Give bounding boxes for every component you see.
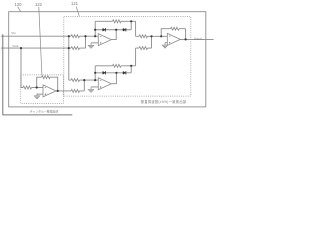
wire U1 diode row	[95, 21, 131, 29]
wire U1 feedback node vertical	[94, 21, 96, 36]
resistor R-122in	[23, 86, 32, 89]
leader 122	[39, 7, 42, 75]
svg-text:120: 120	[15, 2, 23, 7]
wire U1 feedback row	[95, 21, 135, 36]
resistor R-vin	[71, 35, 80, 38]
junction U1 diode row mid	[115, 29, 117, 31]
outer block box 120	[9, 12, 206, 107]
wire Vout row	[1, 36, 86, 48]
op-amp U3	[167, 33, 180, 45]
resistor R-fb2	[113, 64, 122, 67]
wire U3 feedback	[161, 29, 185, 40]
wire 122 +input	[37, 93, 43, 95]
junction U3 input node	[150, 35, 152, 37]
wire node A vertical	[68, 36, 70, 80]
dotted box 122	[21, 75, 64, 104]
wire U2 output	[111, 73, 116, 84]
resistor R-in3a	[139, 35, 148, 38]
junction U3 output	[185, 38, 187, 40]
op-amp U1	[98, 34, 111, 46]
svg-text:121: 121	[71, 1, 79, 6]
ground 122	[34, 93, 39, 98]
wire U1 +input	[91, 42, 98, 44]
leader 121	[76, 7, 79, 16]
junction U1 -input	[94, 35, 96, 37]
ground U1	[88, 43, 93, 48]
op-amp 122	[43, 85, 56, 97]
junction node A top	[68, 35, 70, 37]
dotted box 121	[64, 16, 191, 96]
junction 122 output	[57, 90, 59, 92]
diode D2	[123, 28, 126, 31]
wire 122 output row	[56, 80, 84, 91]
junction U3 -input	[160, 35, 162, 37]
resistor R-122out	[71, 89, 80, 92]
diode D4	[123, 71, 126, 74]
resistor R-122fb	[42, 76, 51, 79]
wire U3 output Vout	[180, 38, 213, 40]
junction parallel R join	[84, 35, 86, 37]
junction U2 diode row left	[94, 72, 96, 74]
wire U2 feedback row	[95, 48, 135, 66]
diode D3	[103, 71, 106, 74]
svg-text:Vin: Vin	[11, 31, 16, 35]
junction 122 -input	[36, 86, 38, 88]
svg-text:122: 122	[35, 2, 43, 7]
wire U1 output	[111, 30, 116, 40]
wire U2 +input	[91, 86, 98, 88]
ground U3	[162, 43, 167, 48]
wire U2 diode row	[95, 66, 131, 73]
resistor R-vout	[71, 47, 80, 50]
ground U2	[88, 87, 93, 92]
wire 122 input to op-amp	[32, 87, 44, 89]
wire Vout drop to 122 stage	[21, 48, 23, 87]
wire U3 input row b	[136, 36, 152, 48]
wire U2 feedback node vertical	[94, 66, 96, 80]
svg-text:垂直周波数(±5%)一致検出部: 垂直周波数(±5%)一致検出部	[141, 99, 187, 104]
resistor R-u2in	[71, 79, 80, 82]
resistor R-in3b	[139, 47, 148, 50]
callout line channel detector	[3, 34, 73, 115]
svg-text:Vout: Vout	[194, 37, 202, 41]
diode D1	[103, 28, 106, 31]
resistor R-fb1	[113, 20, 122, 23]
junction node A bottom	[68, 47, 70, 49]
wire U3 input row a	[136, 35, 168, 37]
junction U1 diode row left	[94, 29, 96, 31]
wire U2 input row	[69, 79, 99, 81]
junction U2 feedback row	[130, 65, 132, 67]
junction U2 diode row mid	[115, 72, 117, 74]
wire 122 feedback	[37, 77, 58, 91]
junction U2 input node	[83, 79, 85, 81]
svg-text:Vout: Vout	[12, 44, 18, 48]
junction U2 -input	[94, 79, 96, 81]
wire Vin row	[1, 35, 98, 37]
wire U3 +input	[165, 42, 167, 44]
svg-text:チャンネル一致検出部: チャンネル一致検出部	[30, 110, 59, 114]
junction dot Vout drop	[20, 47, 22, 49]
op-amp U2	[98, 78, 111, 90]
resistor R-fb3	[171, 27, 180, 30]
leader 120	[18, 7, 21, 12]
junction U1 feedback row	[130, 20, 132, 22]
